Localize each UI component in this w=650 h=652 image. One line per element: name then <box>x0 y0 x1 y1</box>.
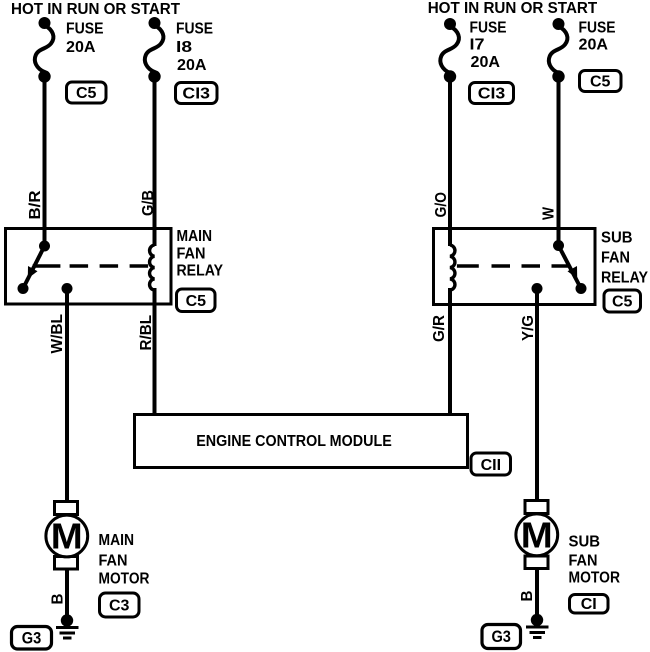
connector CI (motor M2) <box>570 595 609 614</box>
svg-text:FUSE: FUSE <box>66 21 104 38</box>
svg-text:20A: 20A <box>471 54 501 71</box>
relay K2 output dot <box>532 283 543 294</box>
relay K2 switch common dot <box>553 240 564 251</box>
svg-text:FUSE: FUSE <box>470 19 507 36</box>
wire B (motor M1 to ground) <box>65 569 69 621</box>
wire Y/G (relay K2 to sub fan motor) <box>535 289 539 503</box>
svg-text:20A: 20A <box>66 39 96 56</box>
svg-text:FAN: FAN <box>569 553 598 570</box>
connector C3 (motor M1) <box>100 593 140 617</box>
svg-text:G3: G3 <box>491 628 511 646</box>
connector G3 (right) <box>482 625 521 649</box>
label FUSE I7 20A (F3) <box>470 19 507 71</box>
svg-text:Y/G: Y/G <box>520 315 537 341</box>
svg-text:ENGINE CONTROL MODULE: ENGINE CONTROL MODULE <box>196 433 392 450</box>
label SUB FAN RELAY <box>601 229 648 286</box>
connector CII (ECM) <box>471 453 511 475</box>
svg-text:FAN: FAN <box>601 250 630 267</box>
relay K2 switch NO dot <box>576 283 587 294</box>
relay K1 switch blade arrowhead <box>28 266 38 279</box>
svg-text:CI3: CI3 <box>182 86 210 103</box>
svg-text:C3: C3 <box>109 598 130 615</box>
motor M2 SUB FAN MOTOR <box>516 501 558 569</box>
relay K2 switch blade arrowhead <box>568 266 578 279</box>
relay K1 output dot <box>62 283 73 294</box>
svg-text:G/O: G/O <box>433 192 450 218</box>
svg-text:FAN: FAN <box>177 246 206 263</box>
ground G3 (left) <box>56 614 79 638</box>
label FUSE 20A (F1) <box>66 21 104 56</box>
svg-text:FUSE: FUSE <box>579 19 616 36</box>
connector C5 (relay K2) <box>604 290 641 312</box>
svg-text:20A: 20A <box>579 37 609 54</box>
wire G/R (relay K2 coil to ECM) <box>448 305 452 415</box>
svg-text:W/BL: W/BL <box>49 314 66 354</box>
svg-text:G/B: G/B <box>140 190 157 216</box>
label FUSE I8 20A (F2) <box>176 21 213 74</box>
connector C5 (fuse F4) <box>580 71 622 92</box>
svg-text:CII: CII <box>481 457 501 474</box>
relay K1 switch blade <box>23 246 45 289</box>
fuse F1 (FUSE 20A left) <box>35 17 54 83</box>
svg-text:I7: I7 <box>470 37 485 54</box>
svg-text:HOT IN RUN OR START: HOT IN RUN OR START <box>11 1 180 18</box>
wire G/O (fuse F3 to relay K2 coil) <box>448 77 452 247</box>
wire W/BL (relay K1 to main fan motor) <box>65 289 69 503</box>
svg-text:M: M <box>521 514 553 555</box>
svg-text:C5: C5 <box>590 74 611 91</box>
svg-text:SUB: SUB <box>601 229 633 246</box>
svg-text:C5: C5 <box>76 85 97 102</box>
connector G3 (left) <box>12 627 52 650</box>
relay K2 dashed link <box>457 264 570 267</box>
svg-text:B: B <box>519 591 536 602</box>
svg-text:CI: CI <box>581 596 597 613</box>
svg-text:C5: C5 <box>186 293 207 310</box>
svg-text:FAN: FAN <box>99 552 128 569</box>
relay K1 switch NO dot <box>18 283 29 294</box>
svg-text:MAIN: MAIN <box>99 532 135 549</box>
connector C5 (fuse F1) <box>67 82 107 103</box>
svg-text:W: W <box>541 206 558 220</box>
relay K2 SUB FAN RELAY box <box>434 229 596 305</box>
connector CI3 (fuse F3) <box>470 83 514 104</box>
relay K2 coil <box>450 245 455 290</box>
fuse F2 (FUSE I8 20A) <box>145 17 164 83</box>
label SUB FAN MOTOR <box>569 534 621 587</box>
svg-text:G/R: G/R <box>431 315 448 342</box>
svg-text:I8: I8 <box>176 39 192 56</box>
svg-text:B/R: B/R <box>27 190 44 219</box>
connector C5 (relay K1) <box>177 289 216 312</box>
relay K2 switch blade <box>559 246 582 289</box>
relay K1 MAIN FAN RELAY box <box>6 229 172 305</box>
svg-text:SUB: SUB <box>569 534 601 551</box>
wire W (fuse F4 to relay K2 switch) <box>557 77 561 247</box>
svg-text:C5: C5 <box>612 294 633 311</box>
motor M1 MAIN FAN MOTOR <box>46 502 88 570</box>
svg-text:R/BL: R/BL <box>138 315 155 351</box>
svg-text:HOT IN RUN OR START: HOT IN RUN OR START <box>428 0 598 17</box>
relay K1 dashed link <box>33 264 148 267</box>
svg-text:20A: 20A <box>177 57 207 74</box>
svg-text:G3: G3 <box>22 630 42 648</box>
fuse F4 (FUSE 20A right) <box>549 18 568 83</box>
connector CI3 (fuse F2) <box>176 83 218 104</box>
relay K1 coil <box>150 245 155 290</box>
label FUSE 20A (F4) <box>579 19 616 53</box>
label MAIN FAN RELAY <box>177 228 224 280</box>
wire B/R (fuse F1 to relay K1) <box>43 77 47 247</box>
ground G3 (right) <box>526 614 549 638</box>
svg-text:RELAY: RELAY <box>177 262 224 279</box>
svg-text:MOTOR: MOTOR <box>569 570 621 587</box>
svg-text:FUSE: FUSE <box>176 21 213 38</box>
wire coil stub G/B inside relay K1 <box>153 288 157 304</box>
wire R/BL (relay K1 coil to ECM) <box>153 304 157 415</box>
svg-text:MAIN: MAIN <box>177 228 213 245</box>
svg-text:CI3: CI3 <box>478 86 506 103</box>
svg-text:RELAY: RELAY <box>601 270 648 287</box>
label MAIN FAN MOTOR <box>99 532 150 588</box>
svg-text:M: M <box>51 516 83 557</box>
fuse F3 (FUSE I7 20A) <box>440 18 459 83</box>
wire G/B (fuse F2 to relay K1 coil) <box>153 77 157 247</box>
wire coil stub G/R inside relay K2 <box>448 288 452 305</box>
relay K1 switch common dot <box>39 241 50 252</box>
svg-text:B: B <box>50 594 67 605</box>
svg-text:MOTOR: MOTOR <box>99 571 150 588</box>
ECM U1 ENGINE CONTROL MODULE box <box>135 415 468 468</box>
wire B (motor M2 to ground) <box>535 569 539 621</box>
